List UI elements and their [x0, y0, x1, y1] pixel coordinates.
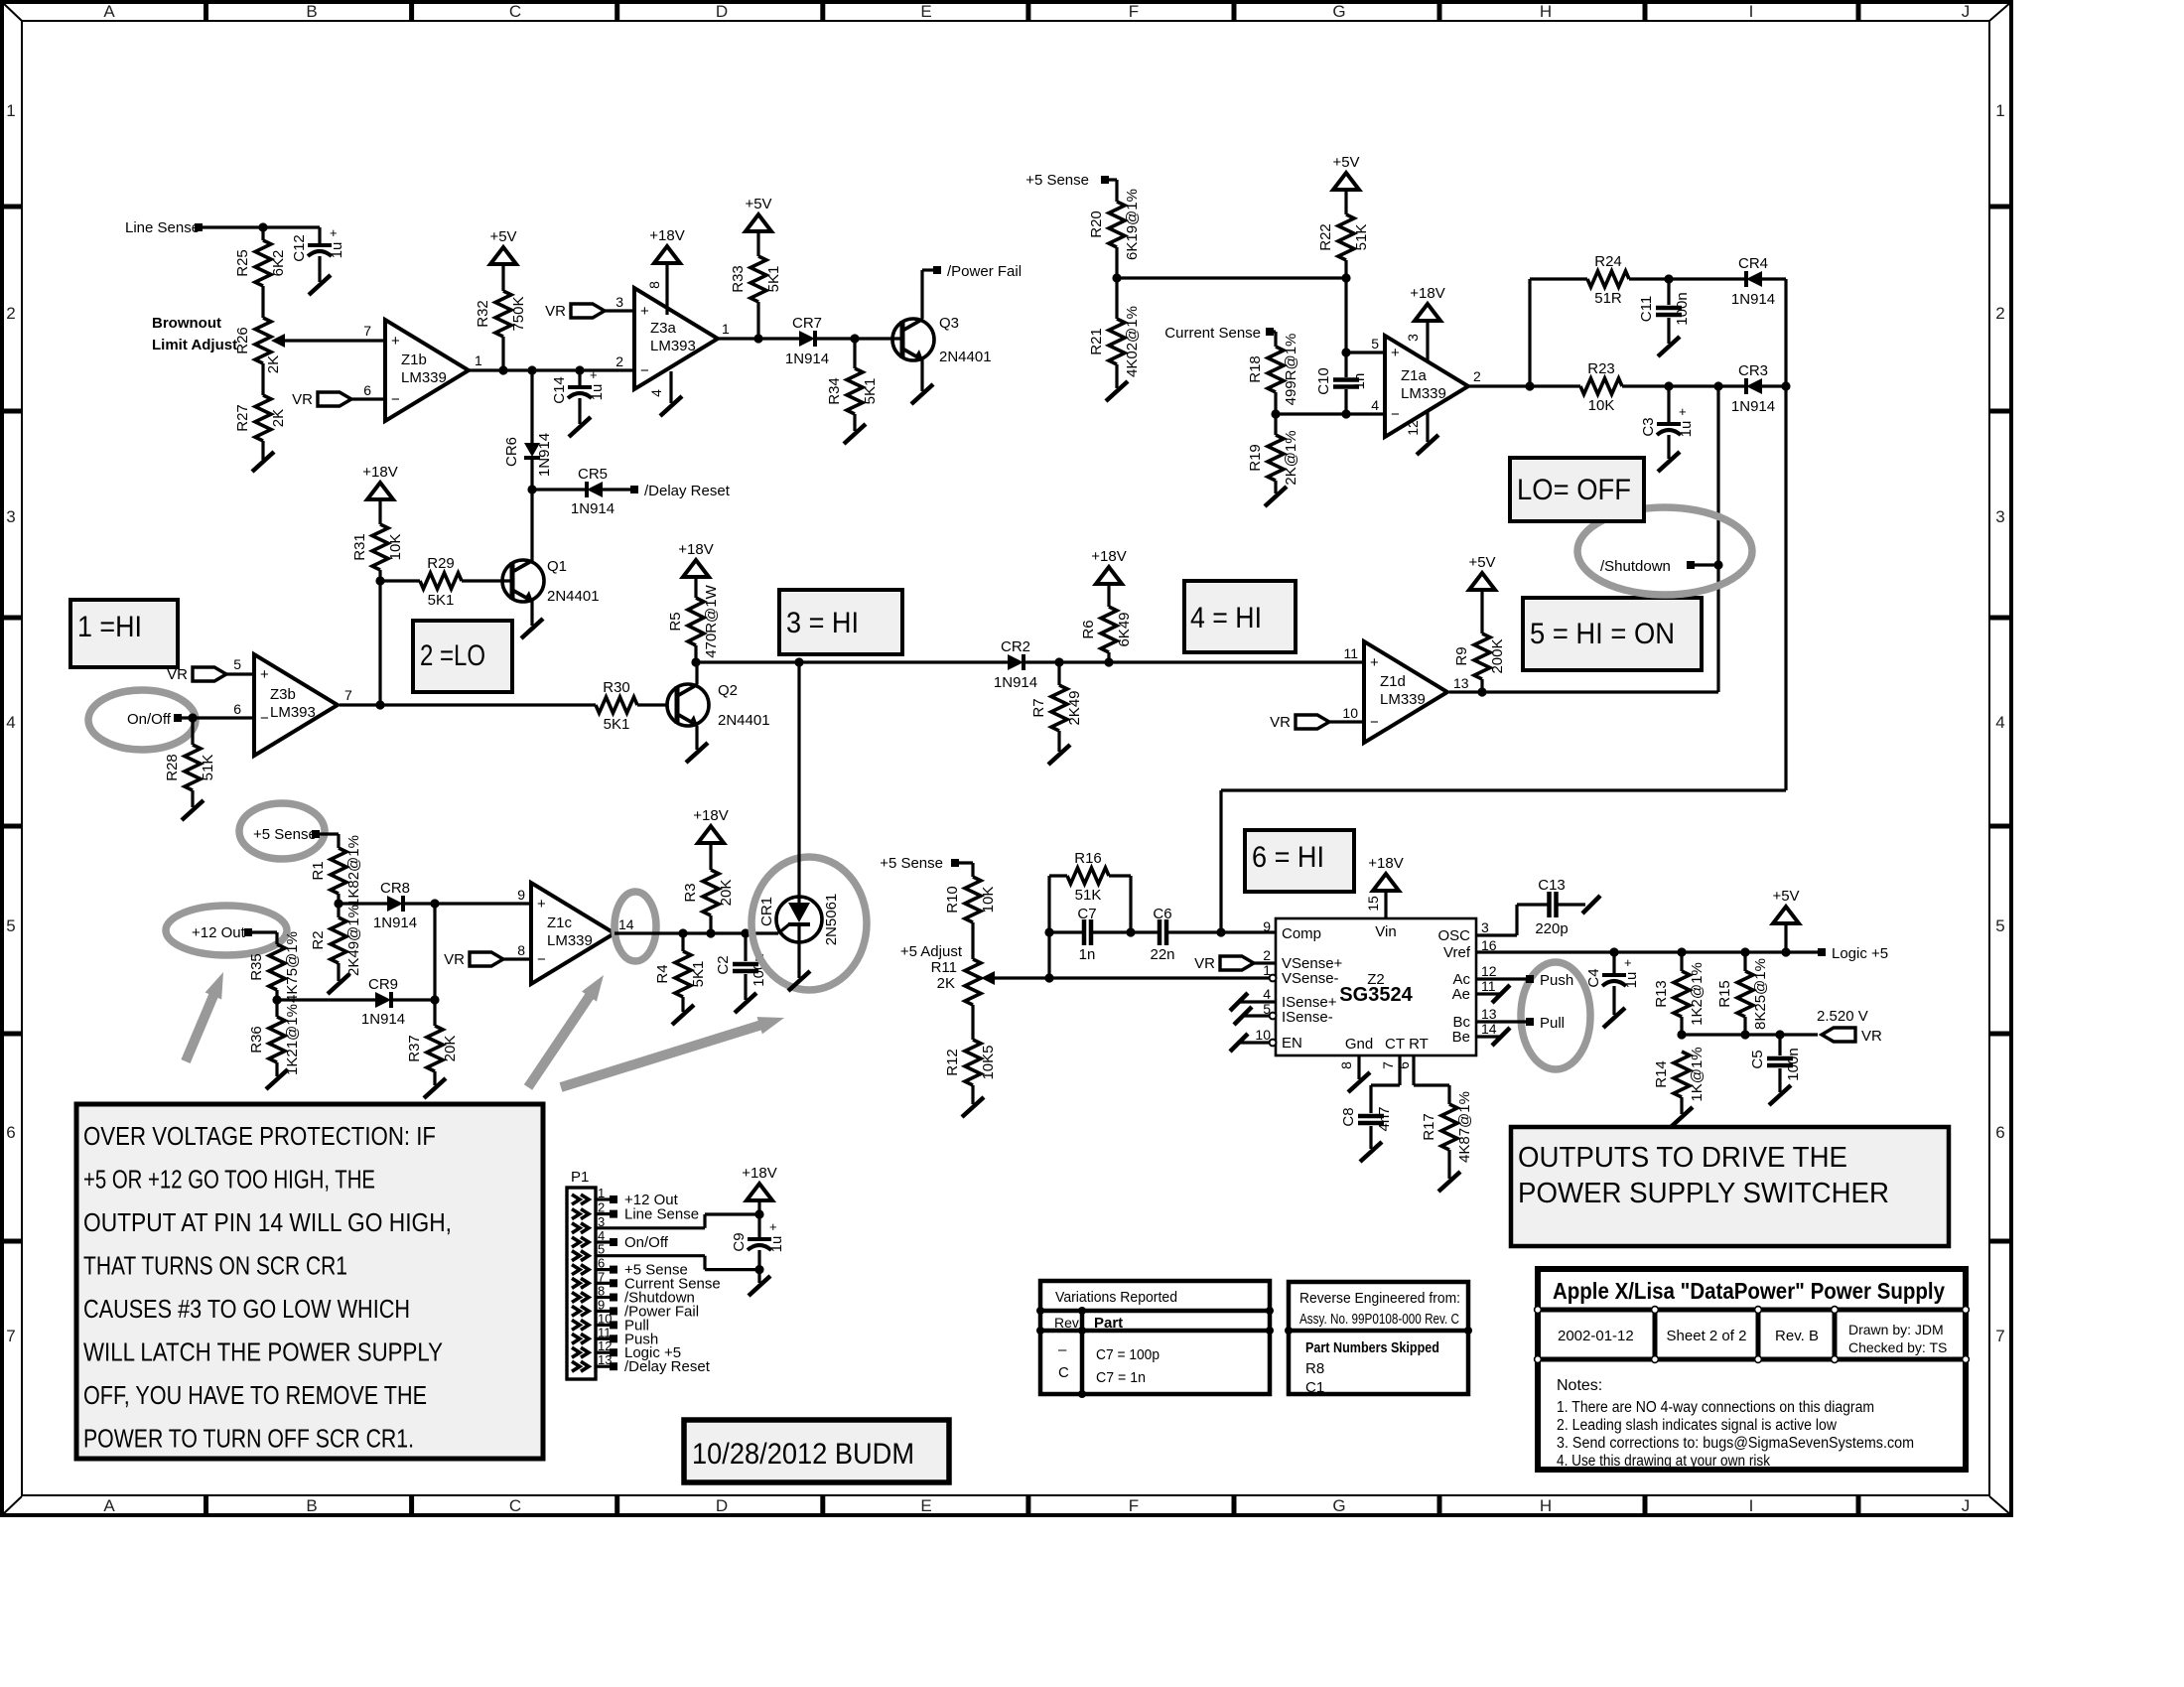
svg-text:5: 5 [6, 916, 15, 935]
svg-text:220p: 220p [1535, 920, 1568, 937]
wire [1557, 896, 1600, 914]
grey arrow to pin 14 [528, 975, 604, 1087]
wire [1129, 876, 1132, 932]
junction [1104, 657, 1113, 666]
svg-text:R20: R20 [1088, 211, 1105, 238]
svg-text:Z1c: Z1c [547, 914, 573, 931]
svg-text:LM339: LM339 [547, 932, 593, 949]
svg-text:LM339: LM339 [401, 369, 447, 386]
svg-text:OSC: OSC [1437, 927, 1470, 944]
wire collector [922, 270, 934, 319]
diode CR4 1N914 [1731, 255, 1775, 308]
svg-text:2: 2 [1263, 947, 1271, 963]
svg-text:+: + [1370, 654, 1379, 671]
svg-text:+12 Out: +12 Out [192, 924, 246, 941]
wire Ac pin 12 Push [1476, 972, 1573, 989]
svg-text:1u: 1u [1623, 972, 1640, 989]
capacitor C3 [1640, 386, 1695, 459]
connector P1 pin 9 /Power Fail [572, 1297, 699, 1320]
node Line Sense [125, 219, 203, 236]
svg-text:51R: 51R [1594, 290, 1622, 307]
junction [1713, 381, 1722, 390]
wire node 1 [469, 368, 634, 371]
resistor R20 [1088, 189, 1141, 278]
svg-text:2: 2 [1995, 304, 2004, 323]
node /Shutdown [1600, 558, 1718, 575]
table Variations Reported [1036, 1281, 1274, 1398]
svg-text:13: 13 [1453, 675, 1469, 691]
svg-text:C7 = 1n: C7 = 1n [1096, 1369, 1146, 1386]
svg-text:100n: 100n [1674, 292, 1691, 325]
power +18V [742, 1165, 776, 1214]
svg-text:B: B [306, 1496, 317, 1515]
svg-text:C3: C3 [1640, 417, 1657, 436]
note box 6 = HI [1245, 830, 1354, 892]
junction [1781, 381, 1790, 390]
svg-text:+: + [590, 367, 598, 382]
junction [1477, 687, 1486, 696]
svg-text:6: 6 [6, 1123, 15, 1142]
svg-text:9: 9 [1263, 918, 1271, 934]
svg-text:R21: R21 [1088, 328, 1105, 355]
resistor R36 [248, 1000, 301, 1076]
svg-text:CR4: CR4 [1738, 255, 1768, 272]
junction [850, 334, 859, 343]
SCR CR1 2N5061 [758, 894, 840, 946]
ground [1603, 1008, 1625, 1028]
junction [1341, 348, 1350, 356]
wire [339, 902, 387, 905]
svg-text:+18V: +18V [678, 541, 713, 558]
svg-text:C13: C13 [1538, 877, 1566, 894]
svg-text:R28: R28 [164, 754, 181, 781]
svg-text:I: I [1749, 2, 1754, 21]
resistor R4 [654, 933, 707, 1012]
svg-text:Apple X/Lisa "DataPower" Power: Apple X/Lisa "DataPower" Power Supply [1553, 1278, 1945, 1304]
svg-text:R29: R29 [427, 555, 455, 572]
svg-text:CAUSES #3 TO GO LOW WHICH: CAUSES #3 TO GO LOW WHICH [83, 1296, 410, 1324]
svg-text:C8: C8 [1340, 1107, 1357, 1126]
svg-text:5 = HI = ON: 5 = HI = ON [1530, 618, 1675, 650]
input VR flag [1194, 955, 1276, 972]
svg-text:8: 8 [646, 281, 662, 289]
svg-text:2K: 2K [265, 355, 282, 373]
note box 2 =LO [413, 621, 512, 692]
connector P1 box [567, 1169, 596, 1379]
ground [1671, 1107, 1693, 1127]
resistor R31 [351, 524, 404, 581]
svg-text:4: 4 [1995, 713, 2004, 732]
svg-text:CR1: CR1 [758, 897, 775, 926]
svg-text:4: 4 [1371, 397, 1379, 413]
wire [603, 488, 632, 491]
svg-text:51K: 51K [1075, 887, 1102, 904]
resistor R25 [234, 227, 287, 318]
svg-text:Vin: Vin [1375, 923, 1396, 940]
svg-text:4 = HI: 4 = HI [1190, 602, 1262, 634]
svg-text:+5V: +5V [1772, 888, 1799, 905]
wire node 5 [1449, 690, 1718, 693]
svg-text:2N4401: 2N4401 [939, 349, 992, 365]
svg-text:C1: C1 [1305, 1379, 1324, 1396]
svg-text:6: 6 [233, 701, 241, 717]
transistor Q1 2N4401 [502, 558, 600, 605]
svg-text:R4: R4 [654, 964, 671, 983]
ground [569, 417, 591, 437]
svg-text:C7 = 100p: C7 = 100p [1096, 1346, 1160, 1363]
svg-text:+: + [769, 1219, 777, 1234]
resistor R12 [944, 1005, 997, 1104]
junction [1271, 409, 1280, 418]
svg-text:−: − [1391, 406, 1400, 423]
svg-text:E: E [920, 1496, 931, 1515]
note box OVER VOLTAGE PROTECTION [76, 1104, 543, 1459]
svg-text:4: 4 [648, 389, 664, 397]
wire collector [512, 490, 532, 572]
junction [1341, 409, 1350, 418]
ground [1265, 487, 1287, 506]
potentiometer R11 +5 Adjust [900, 943, 1049, 1005]
junction [1713, 560, 1722, 569]
grey ellipse pin 14 [614, 892, 656, 961]
svg-text:+18V: +18V [1091, 548, 1126, 565]
svg-text:6K49: 6K49 [1116, 612, 1133, 646]
junction [1054, 657, 1063, 666]
wire [433, 904, 436, 1000]
svg-text:1K21@1%: 1K21@1% [284, 1004, 301, 1075]
svg-text:C7: C7 [1077, 906, 1096, 922]
svg-text:4. Use this drawing at your ow: 4. Use this drawing at your own risk [1557, 1453, 1770, 1470]
svg-text:1: 1 [475, 352, 482, 368]
svg-text:Vref: Vref [1443, 944, 1471, 961]
svg-text:10K: 10K [1588, 397, 1615, 414]
svg-text:4K02@1%: 4K02@1% [1124, 306, 1141, 377]
junction [430, 899, 439, 908]
svg-text:R5: R5 [667, 612, 684, 631]
resistor R18 [1247, 334, 1299, 414]
svg-text:2N4401: 2N4401 [547, 588, 600, 605]
op-amp Z3a LM393 [615, 288, 730, 389]
capacitor C7 [1077, 906, 1096, 963]
svg-text:CR5: CR5 [578, 466, 608, 483]
svg-text:+18V: +18V [1410, 285, 1444, 302]
ground [1106, 381, 1128, 401]
wire [1270, 332, 1276, 347]
svg-text:3: 3 [1481, 919, 1489, 935]
svg-text:2N4401: 2N4401 [718, 712, 770, 729]
svg-text:1K82@1%: 1K82@1% [345, 835, 362, 907]
svg-text:J: J [1962, 1496, 1971, 1515]
svg-text:Rev: Rev [1054, 1315, 1079, 1331]
capacitor C8 [1340, 1106, 1393, 1149]
svg-text:10K: 10K [387, 534, 404, 561]
node Current Sense [1164, 325, 1274, 342]
svg-text:+5 Adjust: +5 Adjust [900, 943, 963, 960]
svg-text:A: A [103, 2, 115, 21]
svg-text:Sheet 2 of 2: Sheet 2 of 2 [1667, 1328, 1747, 1344]
junction [1609, 947, 1618, 956]
svg-text:1n: 1n [1351, 373, 1368, 390]
capacitor C5 [1749, 1035, 1802, 1092]
capacitor C6 [1150, 906, 1174, 963]
svg-text:Be: Be [1452, 1029, 1470, 1046]
svg-text:10: 10 [1255, 1027, 1271, 1043]
svg-text:2: 2 [6, 304, 15, 323]
svg-text:8: 8 [517, 942, 525, 958]
svg-text:−: − [537, 951, 546, 968]
svg-text:2002-01-12: 2002-01-12 [1558, 1328, 1634, 1344]
svg-text:8: 8 [1338, 1061, 1354, 1069]
connector P1 pin 6 +5 Sense [572, 1256, 688, 1279]
note box OUTPUTS TO DRIVE [1511, 1127, 1949, 1246]
svg-text:R17: R17 [1421, 1113, 1437, 1141]
node +5 Sense [1025, 172, 1109, 189]
ground [788, 971, 810, 991]
capacitor C4 [1585, 952, 1640, 1015]
node On/Off [127, 711, 182, 728]
wire Bc pin 13 Pull [1476, 1015, 1565, 1032]
connector P1 pin 13 /Delay Reset [572, 1352, 711, 1375]
node /Power Fail [933, 263, 1022, 280]
svg-text:10K5: 10K5 [980, 1045, 997, 1079]
ground [266, 1069, 288, 1089]
wire node 3 [696, 660, 1008, 663]
wire R24 loop [1530, 279, 1587, 386]
resistor R16 [1067, 850, 1131, 904]
ground [252, 452, 274, 472]
svg-text:Q3: Q3 [939, 315, 959, 332]
svg-text:6: 6 [363, 382, 371, 398]
wire [1344, 278, 1347, 377]
IC Z2 SG3524 [1255, 896, 1496, 1069]
junction [375, 700, 384, 709]
pin 14 Be no-connect [1476, 1028, 1510, 1046]
svg-text:1K@1%: 1K@1% [1689, 1047, 1706, 1101]
wire Vref pin 16 Logic +5 [1476, 950, 1818, 953]
diode CR9 1N914 [361, 976, 405, 1028]
svg-text:OUTPUTS TO DRIVE THE: OUTPUTS TO DRIVE THE [1518, 1142, 1847, 1174]
svg-text:R27: R27 [234, 404, 251, 432]
svg-text:CR3: CR3 [1738, 362, 1768, 379]
svg-text:R25: R25 [234, 249, 251, 277]
wire VSense- [1049, 976, 1276, 979]
wire [318, 256, 321, 282]
svg-text:VSense-: VSense- [1282, 970, 1339, 987]
svg-text:POWER TO TURN OFF SCR CR1.: POWER TO TURN OFF SCR CR1. [83, 1426, 414, 1454]
svg-text:20K: 20K [718, 880, 735, 907]
junction [258, 222, 267, 231]
capacitor C2 [715, 933, 767, 1000]
table Reverse Engineered from [1285, 1282, 1472, 1396]
svg-text:2: 2 [615, 353, 623, 369]
svg-text:−: − [391, 391, 400, 408]
resistor R24 [1587, 253, 1746, 307]
svg-text:+5 Sense: +5 Sense [253, 826, 317, 843]
svg-text:Z1a: Z1a [1401, 367, 1428, 384]
power +18V [1368, 855, 1403, 918]
node +5 Sense [253, 826, 320, 843]
wire [1682, 1033, 1818, 1036]
svg-text:51K: 51K [1353, 224, 1370, 251]
svg-text:3: 3 [6, 507, 15, 526]
note box 5 = HI = ON [1523, 598, 1702, 670]
svg-text:+: + [260, 666, 269, 683]
svg-text:5K1: 5K1 [428, 592, 455, 609]
svg-text:+18V: +18V [693, 807, 728, 824]
pin 4 ISense+ no-connect [1230, 993, 1276, 1011]
note box 1 = HI [70, 600, 178, 667]
ground [735, 993, 756, 1013]
svg-text:+5V: +5V [489, 228, 516, 245]
svg-text:−: − [640, 362, 649, 379]
grey ellipse +12 Out [166, 906, 287, 955]
svg-text:2K: 2K [937, 975, 955, 992]
svg-text:R3: R3 [682, 883, 699, 902]
svg-text:R16: R16 [1074, 850, 1102, 867]
svg-text:Z3b: Z3b [270, 686, 296, 703]
svg-text:Z1b: Z1b [401, 351, 427, 368]
svg-text:1u: 1u [329, 242, 345, 259]
resistor R13 [1653, 952, 1706, 1035]
junction [1781, 947, 1790, 956]
svg-text:RT: RT [1409, 1036, 1429, 1053]
svg-text:WILL LATCH THE POWER SUPPLY: WILL LATCH THE POWER SUPPLY [83, 1339, 443, 1367]
op-amp Z1a LM339 [1371, 336, 1481, 437]
junction [1341, 273, 1350, 282]
svg-text:LM393: LM393 [270, 704, 316, 721]
svg-text:1u: 1u [589, 384, 606, 401]
svg-text:22n: 22n [1150, 946, 1174, 963]
power +5V [745, 196, 771, 256]
svg-text:R34: R34 [826, 377, 843, 405]
note box 3 = HI [779, 590, 902, 654]
op-amp Z1d LM339 [1342, 641, 1468, 743]
diode CR8 1N914 [373, 880, 417, 931]
wire [1716, 386, 1719, 692]
svg-text:6 = HI: 6 = HI [1252, 841, 1324, 874]
svg-text:2. Leading slash indicates sig: 2. Leading slash indicates signal is act… [1557, 1417, 1838, 1434]
resistor R34 [826, 339, 879, 431]
junction [1664, 274, 1673, 283]
connector P1 pin 10 Pull [572, 1311, 649, 1334]
svg-text:CR2: CR2 [1001, 638, 1030, 655]
wire node 14 [614, 931, 778, 934]
svg-text:A: A [103, 1496, 115, 1515]
svg-text:POWER SUPPLY SWITCHER: POWER SUPPLY SWITCHER [1518, 1178, 1889, 1209]
resistor R32 [475, 291, 527, 370]
svg-text:+18V: +18V [649, 227, 684, 244]
svg-text:VR: VR [444, 951, 465, 968]
ground [962, 1097, 984, 1117]
svg-text:12: 12 [1481, 963, 1497, 979]
connector P1 pin 5 [572, 1242, 605, 1261]
svg-text:On/Off: On/Off [127, 711, 172, 728]
resistor R19 [1247, 414, 1299, 493]
svg-text:3: 3 [1995, 507, 2004, 526]
svg-text:6K19@1%: 6K19@1% [1124, 189, 1141, 260]
junction [498, 365, 507, 374]
svg-text:2 =LO: 2 =LO [420, 639, 485, 672]
power +18V [693, 807, 728, 870]
svg-text:4: 4 [6, 713, 15, 732]
wire node 4 [1024, 660, 1364, 663]
ground [182, 800, 204, 820]
title block [1535, 1269, 1970, 1470]
svg-text:R15: R15 [1716, 980, 1733, 1008]
svg-text:R22: R22 [1317, 223, 1334, 251]
resistor R6 [1080, 607, 1133, 662]
svg-text:VR: VR [292, 391, 313, 408]
wire emitter [695, 726, 698, 750]
ground [1658, 337, 1680, 356]
svg-text:1u: 1u [1678, 421, 1695, 438]
svg-text:H: H [1540, 2, 1552, 21]
svg-text:D: D [716, 1496, 728, 1515]
ground [686, 743, 708, 763]
wire [277, 998, 375, 1001]
svg-text:C5: C5 [1749, 1050, 1766, 1068]
svg-text:Q2: Q2 [718, 682, 738, 699]
wire [318, 227, 321, 245]
svg-text:Reverse Engineered from:: Reverse Engineered from: [1299, 1290, 1460, 1307]
resistor R14 [1653, 1047, 1706, 1114]
svg-text:+5V: +5V [1332, 154, 1359, 171]
svg-text:1u: 1u [768, 1236, 785, 1253]
junction [1677, 947, 1686, 956]
note box LO= OFF [1510, 458, 1644, 521]
junction [272, 995, 281, 1004]
wire [815, 337, 902, 340]
note box date BUDM [684, 1420, 949, 1482]
svg-text:9: 9 [517, 887, 525, 903]
ground [521, 619, 543, 638]
svg-text:Current Sense: Current Sense [1164, 325, 1261, 342]
ground [749, 1276, 770, 1296]
pin 12 ground [1405, 410, 1438, 455]
svg-text:4: 4 [1263, 986, 1271, 1002]
input VR flag [444, 951, 531, 968]
svg-text:VR: VR [545, 303, 566, 320]
svg-text:C10: C10 [1315, 367, 1332, 395]
svg-text:+: + [1391, 345, 1400, 361]
wire cathode [797, 924, 800, 978]
grey ellipse /Shutdown [1577, 507, 1752, 595]
svg-text:1N914: 1N914 [785, 351, 829, 367]
resistor R22 [1317, 214, 1370, 278]
power +18V [1091, 548, 1126, 607]
svg-text:C9: C9 [731, 1232, 748, 1251]
op-amp Z3b LM393 [233, 654, 352, 756]
svg-text:+18V: +18V [742, 1165, 776, 1182]
svg-text:R37: R37 [406, 1035, 423, 1062]
diode CR3 1N914 [1731, 362, 1775, 415]
svg-text:G: G [1332, 1496, 1345, 1515]
svg-text:VR: VR [1270, 714, 1291, 731]
power +5V [1332, 154, 1359, 214]
ground [328, 974, 349, 994]
resistor R21 [1088, 278, 1141, 388]
svg-text:7: 7 [1380, 1061, 1396, 1069]
svg-text:–: – [1058, 1341, 1067, 1358]
svg-text:+5 Sense: +5 Sense [880, 855, 943, 872]
pin 11 Ae no-connect [1476, 985, 1510, 1003]
svg-text:CT: CT [1385, 1036, 1405, 1053]
svg-text:5: 5 [1995, 916, 2004, 935]
wire pin 9 [403, 902, 531, 905]
svg-text:7: 7 [6, 1327, 15, 1345]
junction [1740, 1030, 1749, 1039]
wire R16 loop [1049, 876, 1067, 932]
